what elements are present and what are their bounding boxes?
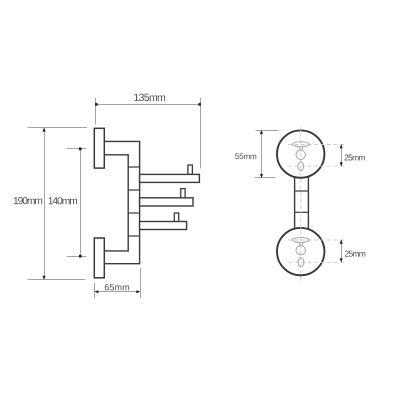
dashed centerline top oval <box>288 165 346 167</box>
hook arm 1 <box>140 174 200 182</box>
dimension 55mm arrow top <box>260 130 263 134</box>
dimension 25mm bottom arrow down <box>340 258 343 262</box>
dimension 65mm line <box>95 291 141 293</box>
hook arm 2 <box>140 198 193 206</box>
bottom center screw hole <box>296 246 305 255</box>
dimension 55mm label <box>235 153 256 159</box>
top lower oval hole <box>298 162 304 171</box>
dimension 135mm extension line right <box>200 98 202 169</box>
top keyhole slot lower arc <box>298 146 305 151</box>
dashed centerline bottom slot <box>288 239 346 241</box>
bottom keyhole slot <box>292 238 309 243</box>
top rosette circle (front view) <box>277 130 324 177</box>
dimension 190mm arrow bottom <box>42 276 45 280</box>
dimension 25mm bottom label <box>345 251 365 257</box>
hook arm 2 peg <box>181 189 185 199</box>
dimension 190mm arrow top <box>42 128 45 132</box>
dimension 55mm extension line top <box>256 130 279 132</box>
dimension 140mm extension line top <box>67 148 87 150</box>
bottom lower oval hole <box>298 258 304 267</box>
dimension 65mm extension line left <box>94 283 96 298</box>
dimension 25mm top line <box>341 145 343 167</box>
dimension 135mm line <box>96 104 201 106</box>
dashed centerline top slot <box>288 144 346 146</box>
swivel post segment division lines <box>128 167 139 236</box>
dimension 135mm label <box>134 94 165 101</box>
dimension 140mm arrow bottom <box>79 255 82 258</box>
connector bar (front view) <box>295 176 309 230</box>
dashed centerline bottom oval <box>288 261 346 263</box>
dimension 25mm top arrow down <box>340 162 343 166</box>
dimension 65mm arrow left <box>95 290 99 293</box>
dimension 25mm bottom arrow up <box>340 240 343 244</box>
bottom keyhole slot lower arc <box>298 242 305 246</box>
dimension 65mm extension line right <box>140 268 142 298</box>
hook arm 3 <box>140 222 187 230</box>
top center screw hole <box>296 150 305 159</box>
dimension 140mm label <box>49 197 78 204</box>
dimension 25mm bottom line <box>341 241 343 263</box>
dimension 190mm label <box>14 197 42 204</box>
dimension 25mm top arrow up <box>340 144 343 148</box>
hook arm 3 peg <box>174 213 178 222</box>
dimension 55mm arrow bottom <box>260 174 263 178</box>
dimension 190mm extension line bottom <box>28 279 86 281</box>
bottom wall plate (side view) <box>94 238 104 278</box>
dimension 140mm arrow top <box>79 148 82 151</box>
dimension 135mm extension line left <box>95 98 97 125</box>
dimension 190mm line <box>44 128 46 280</box>
dimension 140mm line <box>80 149 82 257</box>
connector bar division line upper <box>295 190 309 192</box>
top wall plate (side view) <box>94 128 104 168</box>
dimension 55mm line <box>261 131 263 178</box>
bottom rosette circle (front view) <box>277 228 324 275</box>
dimension 65mm label <box>105 284 129 290</box>
dimension 55mm extension line bottom <box>255 177 276 179</box>
dimension 25mm top label <box>345 154 365 160</box>
hook arm 1 peg <box>188 165 193 174</box>
dimension 65mm arrow right <box>136 290 140 293</box>
dimension 190mm extension line top <box>28 127 88 129</box>
top keyhole slot <box>292 142 309 147</box>
vertical dashed centerline <box>300 127 302 281</box>
dimension 135mm arrow right <box>198 103 201 106</box>
dimension 140mm extension line bottom <box>67 256 87 258</box>
connector bar division line lower <box>295 211 309 213</box>
dimension 135mm arrow left <box>95 103 98 106</box>
bracket outline (mount arms + swivel post, side view) <box>104 141 139 263</box>
